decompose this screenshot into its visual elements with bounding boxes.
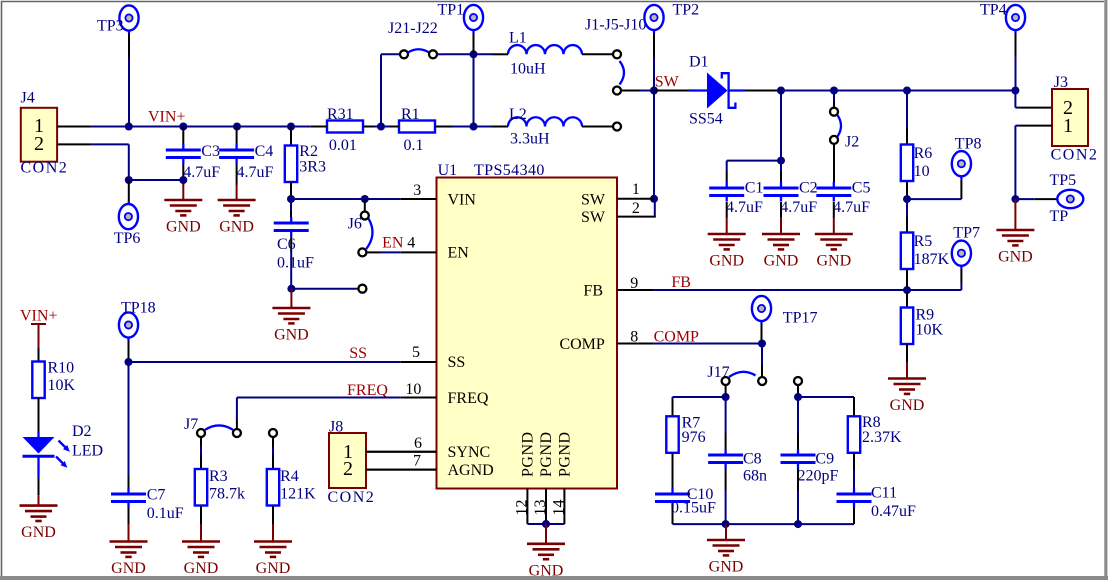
- node junction TP6/J4: [125, 176, 133, 184]
- net label SW: [655, 73, 680, 90]
- inductor L1: [508, 30, 582, 78]
- svg-text:14: 14: [551, 500, 568, 516]
- node rail at TP4: [1011, 87, 1019, 95]
- wire SW pin1-pin2 link: [654, 199, 656, 217]
- wire FB net: [654, 289, 907, 291]
- svg-text:CON2: CON2: [1051, 146, 1099, 163]
- ground GND under D2: [20, 495, 58, 541]
- wire J6 to EN pin: [367, 251, 401, 253]
- U1 pin 7 AGND: [366, 453, 437, 470]
- svg-text:4.7uF: 4.7uF: [780, 199, 817, 216]
- node SS junction: [125, 358, 133, 366]
- net label FB: [671, 274, 691, 291]
- svg-text:0.1: 0.1: [404, 137, 424, 154]
- resistor R2 top pin: [290, 127, 292, 146]
- svg-text:GND: GND: [709, 253, 744, 270]
- svg-text:10: 10: [914, 163, 930, 180]
- svg-text:0.01: 0.01: [329, 137, 357, 154]
- svg-text:L2: L2: [509, 106, 527, 123]
- resistor R2: [285, 143, 326, 182]
- node rail at C8: [722, 520, 730, 528]
- svg-text:GND: GND: [764, 253, 799, 270]
- node VIN+ at C4: [233, 123, 241, 131]
- svg-text:9: 9: [630, 275, 638, 292]
- ground GND under R4: [254, 524, 292, 577]
- svg-text:2: 2: [632, 200, 640, 217]
- wire TP17 to junction: [761, 324, 764, 344]
- jumper J2: [830, 108, 859, 151]
- svg-text:4: 4: [407, 234, 415, 251]
- svg-text:0.1uF: 0.1uF: [147, 505, 184, 522]
- diode D1 cathode pin: [745, 90, 781, 92]
- svg-text:R10: R10: [48, 360, 75, 377]
- capacitor C3 top pin: [182, 127, 184, 145]
- svg-text:C4: C4: [255, 143, 274, 160]
- capacitor C7: [111, 487, 184, 523]
- svg-text:VIN+: VIN+: [148, 109, 185, 126]
- node PGND junction: [542, 520, 550, 528]
- ground GND under C3: [164, 184, 202, 236]
- wire rail to J3 pin2: [1015, 91, 1052, 108]
- op-amp U1 TPS54340 body: [437, 162, 618, 489]
- node junction R1/L2: [470, 123, 478, 131]
- resistor R7: [666, 415, 705, 453]
- wire FREQ net: [237, 398, 401, 429]
- capacitor C2: [764, 180, 818, 217]
- jumper J1-J5-J10 arc: [620, 61, 625, 85]
- wire TP8 to junction: [907, 179, 961, 199]
- svg-text:5: 5: [412, 344, 420, 361]
- resistor R10: [32, 360, 75, 399]
- test point TP7: [952, 224, 980, 268]
- wire TP18 column to C7: [128, 362, 130, 488]
- wire J8 pin2 to AGND: [366, 469, 437, 471]
- wire R3 to GND: [200, 506, 202, 524]
- svg-text:C2: C2: [799, 180, 818, 197]
- wire GND row to C3: [129, 179, 184, 181]
- resistor R4: [267, 468, 316, 506]
- wire C7 bottom: [128, 508, 130, 525]
- svg-text:3R3: 3R3: [299, 159, 326, 176]
- wire rail to R6: [906, 91, 908, 145]
- node rail at R6: [903, 87, 911, 95]
- svg-text:J1-J5-J10: J1-J5-J10: [585, 17, 646, 34]
- U1 pin 2 SW: [617, 200, 656, 217]
- node COMP/TP17 junction: [758, 340, 766, 348]
- ground GND under C2: [762, 217, 800, 270]
- wire J4 pin2: [57, 143, 129, 145]
- node junction TP1/L1: [470, 50, 478, 58]
- pin socket L1 end: [613, 50, 621, 58]
- node C3 bottom junction: [179, 176, 187, 184]
- svg-text:PGND: PGND: [520, 431, 537, 477]
- resistor R31: [327, 106, 363, 154]
- wire R9 to GND: [906, 344, 908, 362]
- net label FREQ: [347, 382, 388, 399]
- wire R4 socket to R4: [272, 437, 274, 469]
- svg-text:C5: C5: [852, 180, 871, 197]
- svg-text:220pF: 220pF: [798, 468, 839, 485]
- jumper J6: [348, 199, 373, 256]
- inductor L1 left pin: [474, 53, 509, 55]
- svg-text:EN: EN: [382, 234, 404, 251]
- wire junction to TP5: [1015, 198, 1057, 200]
- diode D1 SS54: [689, 54, 745, 128]
- test point TP17: [752, 296, 818, 327]
- wire TP4 down: [1015, 33, 1017, 91]
- svg-text:GND: GND: [219, 219, 254, 236]
- U1 pin 10 FREQ: [401, 381, 437, 398]
- jumper J7: [184, 416, 241, 437]
- svg-text:GND: GND: [184, 560, 219, 577]
- wire junction to R5: [906, 199, 908, 232]
- capacitor C2 bottom pin: [780, 202, 782, 218]
- pin socket R4 top: [269, 429, 277, 437]
- wire SS net: [129, 361, 401, 363]
- wire VIN+ to R10: [38, 348, 40, 362]
- net label VIN+: [148, 109, 185, 126]
- node rail at C1C2: [777, 87, 785, 95]
- U1 pin 1 SW: [617, 181, 654, 199]
- svg-text:3: 3: [413, 182, 421, 199]
- svg-text:4.7uF: 4.7uF: [726, 199, 763, 216]
- U1 pin 3 VIN: [401, 182, 437, 199]
- capacitor C5: [816, 180, 870, 217]
- svg-text:PGND: PGND: [557, 431, 574, 477]
- svg-text:R3: R3: [209, 468, 228, 485]
- svg-text:68n: 68n: [743, 468, 767, 485]
- node R2/C6/VIN junction: [287, 195, 295, 203]
- svg-text:121K: 121K: [280, 486, 316, 503]
- svg-text:GND: GND: [111, 560, 146, 577]
- wire VIN+ bus: [92, 126, 311, 128]
- ground GND under C1: [708, 217, 746, 270]
- wire R5 to FB node: [906, 269, 908, 290]
- wire up to J21-J22: [381, 54, 399, 126]
- capacitor C3: [166, 143, 220, 181]
- svg-text:0.47uF: 0.47uF: [871, 503, 916, 520]
- svg-text:J2: J2: [845, 134, 859, 151]
- wire C9 socket down: [797, 385, 799, 397]
- svg-text:SW: SW: [581, 209, 606, 226]
- wire D2 to GND: [38, 478, 40, 495]
- svg-text:10: 10: [405, 381, 421, 398]
- wire PGND bus: [527, 523, 564, 525]
- wire C11 to rail: [853, 508, 855, 525]
- node J6 top junction: [361, 195, 369, 203]
- resistor R1: [399, 106, 435, 154]
- wire output rail: [781, 90, 1015, 92]
- svg-text:TP5: TP5: [1050, 172, 1077, 189]
- svg-text:2: 2: [34, 133, 44, 155]
- svg-text:L1: L1: [509, 30, 527, 47]
- svg-text:R6: R6: [914, 145, 933, 162]
- svg-text:CON2: CON2: [21, 160, 69, 177]
- wire C6 junction to socket: [291, 288, 358, 290]
- wire J17 left down: [725, 385, 727, 397]
- net label COMP: [654, 328, 699, 345]
- jumper J21-J22 label: [388, 20, 438, 37]
- test point TP18: [119, 300, 156, 341]
- svg-text:13: 13: [532, 500, 549, 516]
- node VIN+ at C3: [179, 123, 187, 131]
- test point TP1: [438, 2, 484, 34]
- U1 pin 5 SS: [401, 344, 437, 362]
- svg-text:2.37K: 2.37K: [862, 429, 902, 446]
- svg-text:2: 2: [343, 458, 353, 480]
- wire FB node to R9: [906, 290, 908, 307]
- svg-text:GND: GND: [816, 253, 851, 270]
- ground GND under J3: [996, 199, 1034, 265]
- wire junction to R7: [673, 397, 726, 416]
- test point TP6 pin: [128, 180, 130, 204]
- wire C2 column: [780, 91, 782, 161]
- jumper J1-J5-J10 label: [585, 17, 646, 34]
- svg-text:10K: 10K: [916, 321, 944, 338]
- wire J2 to C5: [833, 144, 835, 182]
- connector J3: [1051, 74, 1099, 163]
- test point TP2: [644, 2, 699, 34]
- wire C10 to rail: [672, 508, 674, 525]
- svg-text:TP6: TP6: [114, 230, 141, 247]
- svg-text:C8: C8: [743, 450, 762, 467]
- svg-text:4.7uF: 4.7uF: [237, 164, 274, 181]
- U1 pin 4 EN: [401, 234, 437, 252]
- capacitor C6 top pin: [290, 199, 292, 217]
- resistor R2 bottom pin: [290, 182, 292, 199]
- wire R31 to R1: [374, 126, 390, 128]
- capacitor C11: [837, 485, 917, 521]
- svg-text:LED: LED: [72, 442, 103, 459]
- wire J4 pin1: [57, 126, 92, 128]
- svg-text:TP: TP: [1050, 208, 1069, 225]
- wire R6 to junction: [906, 181, 908, 199]
- svg-text:R2: R2: [299, 143, 318, 160]
- node rail at C9: [794, 520, 802, 528]
- inductor L2 right pin: [582, 126, 613, 128]
- svg-text:VIN+: VIN+: [20, 308, 57, 325]
- node SW junction: [650, 87, 658, 95]
- wire C1 branch: [727, 161, 781, 182]
- U1 pin 6 SYNC: [366, 435, 437, 452]
- svg-text:C7: C7: [147, 487, 166, 504]
- svg-text:TP17: TP17: [783, 309, 818, 326]
- wire COMP net: [654, 343, 762, 345]
- svg-text:4.7uF: 4.7uF: [833, 199, 870, 216]
- inductor L2: [508, 106, 582, 148]
- U1 PGND pin names: [520, 431, 574, 477]
- node C1C2 junction: [777, 157, 785, 165]
- node SW at pin1: [650, 195, 658, 203]
- U1 pin names left: [448, 191, 494, 479]
- wire junction to R8: [798, 397, 854, 416]
- svg-text:1: 1: [632, 181, 640, 198]
- wire R1 pins: [390, 126, 474, 128]
- svg-text:J21-J22: J21-J22: [388, 20, 438, 37]
- test point TP4: [980, 2, 1025, 34]
- svg-text:6: 6: [414, 435, 422, 452]
- wire TP2 down: [653, 33, 655, 91]
- svg-text:C1: C1: [745, 180, 764, 197]
- svg-text:EN: EN: [448, 245, 470, 262]
- svg-text:GND: GND: [166, 219, 201, 236]
- svg-text:TP2: TP2: [673, 2, 700, 19]
- svg-text:GND: GND: [709, 559, 744, 576]
- ground GND under R3: [182, 524, 220, 577]
- svg-text:J6: J6: [348, 215, 362, 232]
- svg-text:4.7uF: 4.7uF: [183, 164, 220, 181]
- pin socket C9 top: [794, 377, 802, 385]
- svg-text:TP8: TP8: [955, 135, 982, 152]
- pin socket SW side: [613, 87, 621, 95]
- ground GND under C8: [707, 524, 745, 575]
- capacitor C4 bottom pin: [236, 164, 238, 186]
- ground GND under C7: [110, 524, 148, 577]
- svg-text:0.15uF: 0.15uF: [671, 499, 716, 516]
- svg-text:3.3uH: 3.3uH: [510, 131, 550, 148]
- svg-text:VIN: VIN: [448, 191, 477, 208]
- svg-text:TP3: TP3: [97, 18, 124, 35]
- capacitor C6 bottom pin: [290, 237, 292, 289]
- resistor R6: [901, 145, 932, 182]
- wire SW from socket: [621, 90, 654, 92]
- svg-text:TP1: TP1: [438, 2, 465, 19]
- wire J4 pin2 down to GND row: [128, 144, 130, 180]
- diode D1 anode pin: [654, 90, 689, 92]
- wire TP7 to FB node: [907, 269, 961, 290]
- svg-text:GND: GND: [890, 397, 925, 414]
- node R6/R5/TP8 junction: [903, 195, 911, 203]
- svg-text:10K: 10K: [48, 377, 76, 394]
- svg-text:J3: J3: [1054, 74, 1068, 91]
- svg-text:GND: GND: [256, 560, 291, 577]
- svg-text:TP4: TP4: [980, 2, 1007, 19]
- svg-text:GND: GND: [529, 562, 564, 579]
- ground GND under C5: [815, 217, 853, 270]
- svg-text:SW: SW: [581, 191, 606, 208]
- svg-text:SYNC: SYNC: [448, 444, 491, 461]
- wire R31 pins: [311, 126, 374, 128]
- capacitor C8: [708, 449, 767, 485]
- capacitor C4: [219, 143, 273, 181]
- wire SW down to U1: [653, 91, 655, 199]
- connector J4: [21, 90, 69, 177]
- wire J2 from rail: [833, 91, 835, 108]
- wire J21-J22 to TP1 node: [443, 53, 474, 55]
- svg-text:GND: GND: [21, 524, 56, 541]
- resistor R3: [195, 468, 245, 506]
- svg-text:CON2: CON2: [328, 489, 376, 506]
- svg-text:976: 976: [682, 429, 706, 446]
- svg-text:SS: SS: [448, 354, 466, 371]
- svg-text:R1: R1: [401, 106, 420, 123]
- svg-text:COMP: COMP: [559, 336, 604, 353]
- led D2: [23, 423, 104, 478]
- wire R4 to GND: [272, 506, 274, 524]
- svg-text:R4: R4: [280, 468, 299, 485]
- svg-text:TP7: TP7: [953, 224, 980, 241]
- svg-text:R5: R5: [914, 233, 933, 250]
- node junction R31/R1/J21: [377, 123, 385, 131]
- ground GND under C4: [218, 184, 256, 236]
- svg-text:C6: C6: [277, 236, 296, 253]
- U1 pin 8 COMP: [617, 328, 653, 345]
- wire R8 to C11: [853, 453, 855, 488]
- svg-text:78.7k: 78.7k: [209, 486, 245, 503]
- svg-text:FB: FB: [583, 282, 603, 299]
- resistor R8: [848, 414, 902, 453]
- test point TP6: [114, 204, 141, 247]
- svg-text:187K: 187K: [914, 251, 950, 268]
- net label EN: [382, 234, 404, 251]
- svg-text:U1: U1: [438, 162, 458, 179]
- node VIN+ at J4/TP3: [125, 123, 133, 131]
- node C9/R8 junction: [794, 393, 802, 401]
- svg-text:7: 7: [413, 453, 421, 470]
- svg-text:0.1uF: 0.1uF: [277, 254, 314, 271]
- node FB junction: [903, 286, 911, 294]
- svg-text:J7: J7: [184, 416, 198, 433]
- wire C8 bottom: [725, 469, 727, 525]
- svg-text:SS54: SS54: [689, 110, 723, 127]
- svg-text:12: 12: [514, 500, 531, 516]
- U1 pin 9 FB: [617, 275, 653, 292]
- node R7/C8 junction: [722, 393, 730, 401]
- svg-text:GND: GND: [274, 327, 309, 344]
- connector J8: [328, 419, 376, 507]
- wire VIN to U1 pin3: [291, 198, 401, 200]
- ground GND under R9: [888, 362, 926, 414]
- pin socket L2 end: [613, 123, 621, 131]
- svg-text:TP18: TP18: [121, 300, 156, 317]
- capacitor C5 bottom pin: [833, 202, 835, 218]
- wire R7 to C10: [672, 453, 674, 488]
- svg-text:AGND: AGND: [448, 462, 494, 479]
- capacitor C1 bottom pin: [726, 202, 728, 218]
- jumper J21-J22: [400, 49, 443, 58]
- wire J7 to R3: [200, 437, 202, 469]
- wire C2 pin: [780, 161, 782, 182]
- inductor L1 right pin: [582, 53, 613, 55]
- svg-text:C3: C3: [201, 143, 220, 160]
- svg-text:PGND: PGND: [538, 431, 555, 477]
- wire C9 bottom: [797, 469, 799, 525]
- node TP5/GND junction: [1011, 195, 1019, 203]
- svg-text:SW: SW: [655, 73, 680, 90]
- ground GND under U1: [527, 524, 565, 579]
- capacitor C6: [274, 217, 314, 271]
- capacitor C9: [781, 449, 839, 485]
- test point TP8: [952, 135, 982, 179]
- wire junction to J17: [761, 344, 763, 377]
- svg-text:R31: R31: [327, 106, 354, 123]
- inductor L2 left pin: [474, 126, 509, 128]
- svg-text:FB: FB: [671, 274, 691, 291]
- wire TP3 to VIN+ bus: [128, 34, 130, 127]
- power port VIN+ bottom: [20, 308, 57, 349]
- node rail at J2: [830, 87, 838, 95]
- node C6 bottom junction: [287, 285, 295, 293]
- svg-text:J8: J8: [329, 419, 343, 436]
- svg-text:GND: GND: [998, 249, 1033, 266]
- capacitor C1: [709, 180, 763, 217]
- capacitor C10: [655, 486, 716, 516]
- wire TP18 down: [128, 341, 130, 363]
- pin socket EN open: [358, 285, 366, 293]
- capacitor C4 top pin: [236, 127, 238, 145]
- U1 pins 12 13 14 PGND: [514, 489, 568, 525]
- wire J3 pin1: [1015, 126, 1052, 200]
